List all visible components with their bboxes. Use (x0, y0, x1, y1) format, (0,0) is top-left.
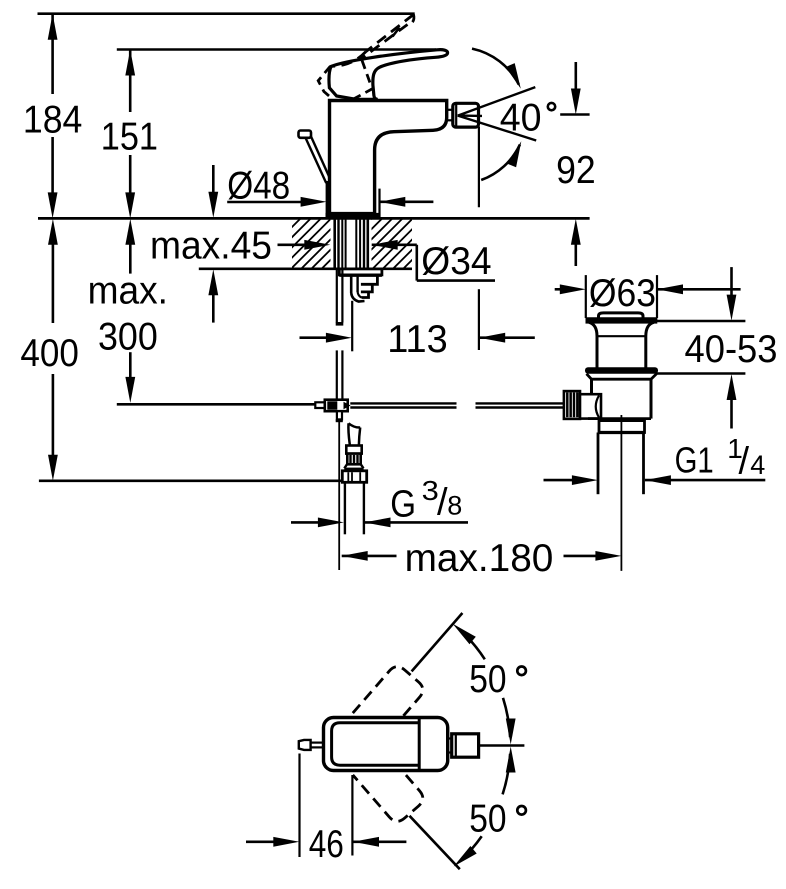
svg-text:50: 50 (469, 658, 506, 701)
svg-text:46: 46 (309, 823, 344, 866)
svg-text:40-53: 40-53 (685, 328, 778, 371)
svg-text:50: 50 (469, 798, 506, 841)
svg-text:/: / (739, 441, 750, 483)
svg-text:Ø63: Ø63 (589, 272, 656, 315)
svg-text:max.: max. (88, 270, 168, 313)
svg-text:40: 40 (500, 97, 542, 140)
svg-text:92: 92 (556, 149, 596, 192)
svg-text:G1: G1 (675, 440, 714, 481)
svg-text:300: 300 (98, 316, 158, 359)
svg-text:max.180: max.180 (405, 537, 554, 580)
svg-text:400: 400 (20, 332, 79, 375)
svg-text:max.45: max.45 (150, 225, 272, 268)
svg-text:G: G (390, 484, 416, 526)
svg-text:184: 184 (23, 98, 83, 141)
svg-text:113: 113 (387, 318, 448, 361)
svg-text:4: 4 (750, 450, 765, 480)
svg-text:8: 8 (447, 491, 462, 521)
svg-text:Ø34: Ø34 (421, 240, 491, 283)
svg-text:151: 151 (101, 116, 158, 159)
